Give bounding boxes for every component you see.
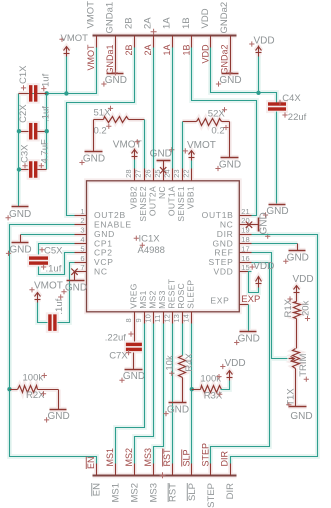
top connector pin stub GNDa1 [115,36,117,48]
IC pin 5 (CP2) stub [75,252,87,254]
wire ENABLE: pin 2 to bottom header [10,225,97,464]
IC pin 11 (MS3) stub [163,312,165,324]
bottom connector pin stub STEP [210,464,212,476]
IC pin 13 (ROSC) stub [182,312,184,324]
ground C7X [125,369,143,371]
wire SENSE1: 52X to IC pin 23 [182,122,184,169]
wire pin 18 GND [252,243,298,245]
svg-text:IC1X: IC1X [139,233,161,244]
svg-text:GNDa2: GNDa2 [219,2,230,34]
junction VMOT rail / C1X right [45,91,49,95]
svg-text:VBB2: VBB2 [128,186,138,209]
capacitor C4X 22uf [268,102,286,105]
capacitor C1X 1uf [29,85,32,102]
svg-text:VREG: VREG [128,283,138,309]
svg-text:28: 28 [124,169,133,177]
svg-text:ROSC: ROSC [176,283,186,309]
svg-text:VDD: VDD [200,8,211,28]
svg-text:5: 5 [80,244,84,253]
svg-text:GNDa1: GNDa1 [105,44,115,74]
wire MS2: pin 10 to bottom header [135,324,154,464]
IC pin 25 (NC) stub [163,169,165,181]
IC pin 12 (RESET) stub [172,312,174,324]
svg-text:C2X: C2X [18,104,29,123]
svg-text:VMOT: VMOT [85,1,96,29]
bottom connector pin stub MS1 [115,464,117,476]
svg-text:GND: GND [290,411,312,422]
svg-text:16: 16 [241,254,249,263]
ground R4X [169,402,187,404]
IC pin 8 (VREG) stub [134,312,136,324]
svg-text:VDD: VDD [225,358,246,369]
svg-text:9: 9 [134,318,143,322]
svg-text:2A: 2A [143,45,153,56]
wire 51X left to ground [93,120,95,152]
svg-text:10k: 10k [164,355,175,371]
svg-text:SLP: SLP [187,483,198,501]
IC pin 14 (SLEEP) stub [191,312,193,324]
bottom connector pin stub SLP [191,464,193,476]
wire RST: pin 12 straight to bottom header [172,324,174,464]
svg-text:8: 8 [124,318,133,322]
capacitor C2X .1uf [29,123,32,140]
wire MS1: pin 9 to bottom header [116,324,145,464]
svg-text:GND: GND [47,411,69,422]
top connector pin stub 2A [153,36,155,48]
svg-text:RST: RST [162,448,172,467]
svg-text:GND: GND [258,212,269,234]
svg-text:15: 15 [241,263,249,272]
ground IC pin 18 [289,250,306,252]
IC pin 4 (CP1) stub [75,243,87,245]
wire VCP: cap to pin 6 [58,263,75,323]
capacitor C5X .1uf [29,256,48,259]
wire C4X to ground [276,112,278,204]
svg-text:27: 27 [134,169,143,177]
svg-text:SENSE2: SENSE2 [138,186,148,222]
bottom connector pin stub RST [172,464,174,476]
wire 1A: connector to OUT1A pin 24 [172,48,174,169]
svg-text:OUT2A: OUT2A [147,186,157,216]
ground C4X [269,204,286,206]
svg-text:21: 21 [241,207,249,216]
A4988 value text [140,243,145,248]
wire CP1: pin 4 to C5X [39,244,75,255]
junction SLEEP / R3X [190,387,194,391]
svg-text:VDD: VDD [213,267,233,277]
IC1X name text [134,236,139,241]
svg-text:100k: 100k [200,373,221,384]
svg-text:7: 7 [80,263,84,272]
wire C7X to ground [133,353,135,370]
svg-text:RESET: RESET [167,279,177,309]
top connector pin stub 1A [172,36,174,48]
supply VMOT arrow (top left) [66,47,68,57]
IC pin 24 (OUT1A) stub [172,169,174,181]
wire DIR: pin 19 to bottom header [231,235,318,464]
svg-text:RST: RST [168,483,179,502]
wire R1X to trimmer [296,319,298,349]
top connector pin stub VDD [210,36,212,48]
svg-text:EN: EN [86,456,96,469]
wire left VMOT rail down to C2X C3X and GND [18,94,20,207]
bottom connector pin stub MS2 [134,464,136,476]
ground IC pin 3 [12,242,29,244]
trimmer T1X TRIM [293,349,300,369]
svg-text:11: 11 [153,315,162,323]
connector SV1 origin cross [151,29,157,35]
svg-text:.22uf: .22uf [105,332,126,343]
IC pin 19 (DIR) stub [240,234,252,236]
svg-text:EXP: EXP [241,294,260,305]
svg-text:1A: 1A [162,17,173,29]
svg-text:2B: 2B [124,17,135,29]
svg-text:R1X: R1X [283,298,294,317]
ground 52X [221,157,239,159]
svg-text:24: 24 [162,169,171,177]
ground EXP [240,331,257,333]
svg-text:GNDa1: GNDa1 [104,2,115,34]
svg-text:GND: GND [65,283,87,294]
svg-text:VDD: VDD [254,35,275,46]
IC pin 6 (VCP) stub [75,262,87,264]
resistor R4X 10k on ROSC [182,324,184,356]
svg-text:DIR: DIR [220,451,230,467]
wire EXP to ground [248,305,250,332]
svg-text:R2X: R2X [26,390,45,401]
junction ENABLE / R2X [7,387,11,391]
svg-text:6: 6 [80,254,84,263]
svg-text:VMOT: VMOT [34,280,63,291]
capacitor C7X .22uf [126,343,142,346]
IC pin 1 (OUT2B) stub [75,215,87,217]
svg-text:100k: 100k [23,372,44,383]
svg-text:13: 13 [172,314,181,322]
connector SV1 top bar [93,35,237,37]
svg-text:25: 25 [153,169,162,177]
bottom connector pin stub MS3 [153,464,155,476]
op-amp U1 -- IC1X A4988 body [87,181,240,312]
svg-text:2A: 2A [143,17,154,29]
svg-text:GND: GND [266,206,288,217]
svg-text:TRIM: TRIM [298,353,309,376]
IC pin 23 (SENSE1) stub [182,169,184,181]
svg-text:MS2: MS2 [124,448,134,467]
svg-text:VMOT: VMOT [61,33,89,44]
wire R4X to ground [182,378,184,403]
IC pin 15 (VDD) stub [240,271,252,273]
svg-text:VMOT: VMOT [187,140,216,151]
wire 1B: connector to OUT1B pin 21 [192,48,257,216]
wire 2B: connector to OUT2B pin 1 [67,48,135,216]
supply VDD arrow on pin 15 [249,272,259,293]
IC pin 16 (STEP) stub [240,262,252,264]
ground R2X [50,409,67,411]
svg-text:SENSE1: SENSE1 [176,186,186,222]
bottom connector pin stub EN [96,464,98,476]
svg-text:MS2: MS2 [147,290,157,309]
svg-text:1B: 1B [181,45,191,56]
wire STEP: pin 16 to bottom header [211,263,270,464]
svg-text:VBB1: VBB1 [186,186,196,209]
wire 2A: connector to OUT2A pin 26 [153,48,155,169]
IC pin 10 (MS2) stub [153,312,155,324]
no-connect pin 7 with ground [71,269,77,275]
svg-text:1A: 1A [162,45,172,56]
ground GNDa2 [222,73,239,75]
svg-text:NC: NC [94,267,108,277]
svg-text:C3X: C3X [20,144,31,163]
wire 52X right to ground [229,122,231,158]
wire right cap rail C1X to C3X [46,94,48,170]
svg-text:A4988: A4988 [138,245,165,256]
IC pin EXP stub [240,304,249,306]
top connector pin stub 1B [191,36,193,48]
svg-text:GND: GND [167,405,189,416]
IC pin 7 (NC) stub [75,271,87,273]
svg-text:C1X: C1X [18,65,29,84]
svg-text:VDD: VDD [200,44,210,64]
wire VMOT: connector pin to rail [19,48,97,94]
connector SV2 origin cross [160,472,166,478]
svg-text:C5X: C5X [44,246,63,257]
top connector pin stub VMOT [96,36,98,48]
svg-text:STEP: STEP [200,443,210,467]
svg-text:4.7uF: 4.7uF [40,139,51,163]
svg-text:GND: GND [9,209,31,220]
svg-text:20k: 20k [300,300,311,316]
svg-text:17: 17 [241,244,249,253]
wire CP2: pin 5 to C5X bottom [39,253,75,275]
IC pin 26 (OUT2A) stub [153,169,155,181]
ground trimmer [289,406,307,408]
svg-text:1: 1 [80,207,84,216]
svg-text:14: 14 [182,314,191,322]
supply VDD arrow on R3X [229,371,231,381]
IC pin 27 (SENSE2) stub [144,169,146,181]
IC pin 20 (NC) stub [240,224,252,226]
svg-text:C7X: C7X [109,350,128,361]
GNDa1 wire to ground [115,48,117,74]
svg-text:51X: 51X [94,107,112,118]
svg-text:.1uf: .1uf [46,264,62,275]
ground below cap rail [12,206,29,208]
svg-text:GND: GND [287,252,309,263]
svg-text:MS1: MS1 [110,483,121,503]
wire pin 3 GND [21,234,75,236]
no-connect pin 20 with rotated ground [246,222,252,228]
svg-text:GNDa2: GNDa2 [220,45,230,75]
svg-text:1uf: 1uf [41,73,52,87]
svg-text:STEP: STEP [206,483,217,508]
svg-text:GND: GND [219,160,241,171]
svg-text:VMOT: VMOT [86,44,96,71]
svg-text:18: 18 [241,235,249,244]
svg-text:GND: GND [105,75,127,86]
IC pin 28 (VBB2) stub [134,169,136,181]
junction C2X left [17,129,21,133]
IC pin 17 (REF) stub [240,252,252,254]
ground 51X [85,151,103,153]
IC pin 18 (GND) stub [240,243,252,245]
svg-text:SLP: SLP [181,449,191,466]
svg-text:2: 2 [80,216,84,225]
svg-text:22: 22 [182,169,191,177]
svg-text:R4X: R4X [184,352,195,371]
wire SLP: pin 14 straight to bottom header [191,324,193,464]
svg-text:10: 10 [143,314,152,322]
top connector pin stub GNDa2 [230,36,232,48]
junction VDD arrow / rail [256,91,260,95]
svg-text:.1uf: .1uf [54,298,65,314]
svg-text:MS3: MS3 [157,290,167,309]
svg-text:VDD: VDD [253,261,274,272]
svg-text:GND: GND [238,334,260,345]
svg-text:OUT1A: OUT1A [167,186,177,216]
IC pin 9 (MS1) stub [144,312,146,324]
resistor R1X 20k [296,296,298,302]
svg-text:GND: GND [83,154,105,165]
capacitor VCP .1uf [48,314,51,331]
junction VMOT rail / arrow [64,91,68,95]
svg-text:GND: GND [9,244,31,255]
svg-text:GND: GND [123,371,145,382]
bottom connector pin stub DIR [230,464,232,476]
wire REF: pin 17 to trimmer wiper [252,253,288,359]
svg-text:MS3: MS3 [149,483,160,503]
svg-text:12: 12 [162,314,171,322]
IC pin 3 (GND) stub [75,234,87,236]
svg-text:3: 3 [80,226,84,235]
IC pin 21 (OUT1B) stub [240,215,252,217]
IC pin 2 (ENABLE) stub [75,224,87,226]
svg-text:SLEEP: SLEEP [186,280,196,309]
svg-text:MS2: MS2 [130,483,141,503]
supply VDD arrow (top right) [258,46,260,57]
svg-text:MS1: MS1 [105,448,115,467]
junction C3X left [17,167,21,171]
ground GNDa1 [107,73,124,75]
svg-text:DIR: DIR [225,483,236,500]
svg-text:.1uf: .1uf [41,106,52,122]
svg-text:26: 26 [143,169,152,177]
svg-text:EN: EN [91,483,102,496]
IC pin 22 (VBB1) stub [191,169,193,181]
svg-text:NC: NC [157,186,167,199]
junction C2X right [45,129,49,133]
wire MS3: pin 11 to bottom header [154,324,164,464]
svg-text:22uf: 22uf [288,112,307,123]
connector SV2 bottom bar [93,475,237,477]
svg-text:2B: 2B [124,45,134,56]
svg-text:EXP: EXP [210,296,229,306]
svg-text:4: 4 [80,235,84,244]
top connector pin stub 2B [134,36,136,48]
svg-text:1B: 1B [181,17,192,29]
svg-text:0.2: 0.2 [211,126,224,137]
svg-text:MS1: MS1 [138,290,148,309]
wire SENSE2: 51X to IC pin 27 [144,120,146,169]
svg-text:23: 23 [172,169,181,177]
svg-text:MS3: MS3 [143,448,153,467]
svg-text:GND: GND [219,75,241,86]
wire VDD: connector pin right [211,48,277,103]
svg-text:C4X: C4X [282,93,301,104]
svg-text:19: 19 [241,226,249,235]
wire R2X to ground [58,390,60,410]
wire trimmer to ground [295,369,297,407]
svg-text:VDD: VDD [293,274,314,285]
capacitor C3X 4.7uF [29,161,32,178]
GNDa2 wire to ground [230,48,232,74]
wire VREG: pin 8 to C7X [134,324,136,342]
svg-text:0.2: 0.2 [94,125,107,136]
